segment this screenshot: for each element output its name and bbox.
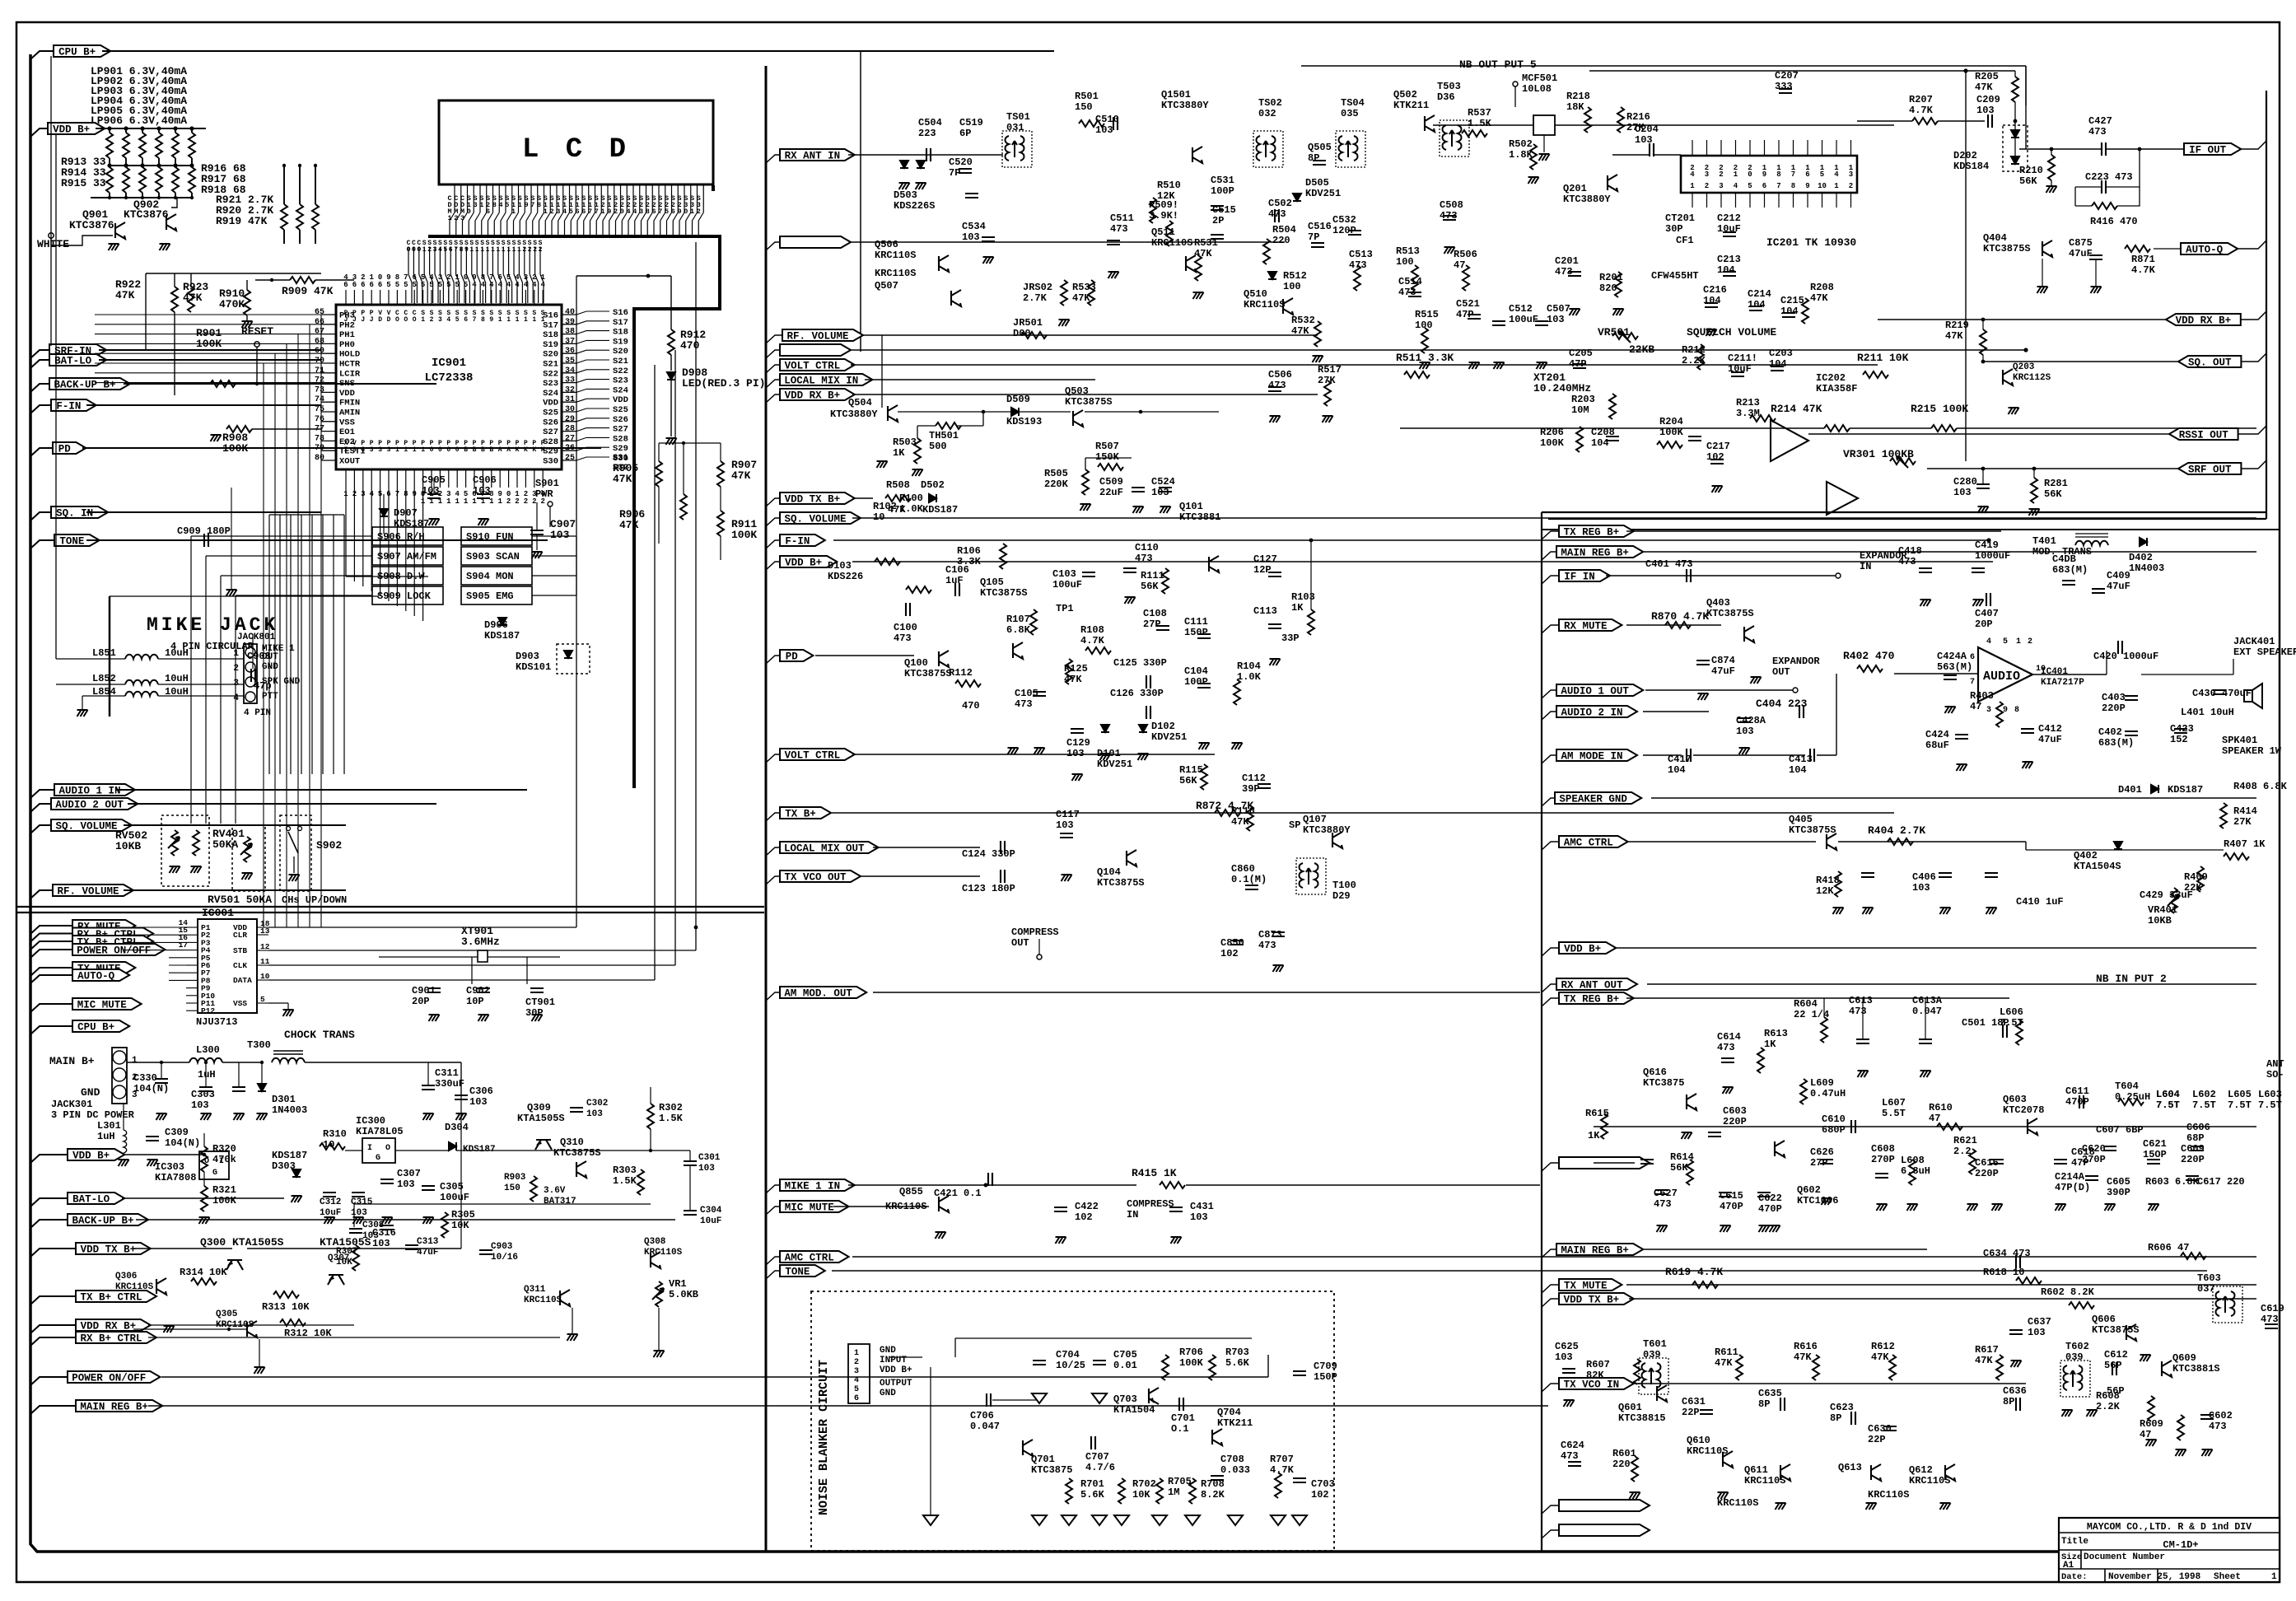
svg-text:473: 473 xyxy=(894,632,912,644)
svg-text:R106: R106 xyxy=(957,545,981,557)
expandor out node xyxy=(1793,688,1798,693)
wire RX ANT OUT r xyxy=(1647,983,2256,985)
svg-text:O: O xyxy=(407,246,411,254)
capacitor xyxy=(1033,692,1046,696)
svg-text:R708: R708 xyxy=(1201,1478,1225,1490)
svg-text:78: 78 xyxy=(315,434,324,443)
svg-text:5: 5 xyxy=(404,281,408,289)
net mid LOCAL MIX OUT xyxy=(766,847,780,856)
svg-text:KTC3875S: KTC3875S xyxy=(1097,877,1145,889)
svg-text:KTC3881S: KTC3881S xyxy=(2172,1363,2220,1375)
resistor xyxy=(1098,464,1123,470)
svg-text:104(N): 104(N) xyxy=(165,1137,200,1149)
svg-text:KTC3875S: KTC3875S xyxy=(904,668,952,679)
resistor xyxy=(1189,1478,1196,1504)
ground xyxy=(1907,1204,1918,1211)
svg-text:C504: C504 xyxy=(918,117,942,128)
svg-text:3.9K!: 3.9K! xyxy=(1149,210,1178,222)
svg-text:104: 104 xyxy=(1780,306,1799,317)
svg-text:34: 34 xyxy=(565,366,575,376)
wire SRF OUT right xyxy=(1927,468,2178,469)
C330 cap xyxy=(155,1079,168,1083)
svg-text:47K: 47K xyxy=(1871,1351,1889,1363)
wire F-IN run xyxy=(86,404,321,406)
ground xyxy=(1698,693,1709,700)
transistor xyxy=(2162,1361,2172,1377)
svg-text:7P: 7P xyxy=(949,167,960,179)
svg-text:KRC112S: KRC112S xyxy=(2013,373,2051,383)
capacitor xyxy=(1799,705,1804,718)
resistor xyxy=(1195,255,1202,281)
ground xyxy=(1822,1198,1832,1205)
svg-text:1: 1 xyxy=(464,497,469,506)
svg-text:3: 3 xyxy=(556,208,560,216)
svg-text:JACK801: JACK801 xyxy=(237,632,276,642)
svg-text:S21: S21 xyxy=(543,360,558,370)
svg-text:683(M): 683(M) xyxy=(2098,737,2134,749)
svg-text:5: 5 xyxy=(421,273,425,282)
svg-text:36: 36 xyxy=(565,347,575,356)
svg-text:Q104: Q104 xyxy=(1097,866,1121,878)
svg-text:Q308: Q308 xyxy=(644,1237,666,1247)
svg-text:Q107: Q107 xyxy=(1303,814,1327,825)
capacitor xyxy=(1820,1160,1833,1164)
svg-text:C636: C636 xyxy=(2003,1385,2027,1397)
R303 resistor xyxy=(637,1169,644,1195)
capacitor xyxy=(2009,1330,2023,1334)
svg-text:VDD RX B+: VDD RX B+ xyxy=(785,390,841,402)
svg-text:HOLD: HOLD xyxy=(339,350,360,360)
svg-text:4: 4 xyxy=(1834,170,1839,179)
svg-text:C207: C207 xyxy=(1775,70,1799,82)
ground Q306 xyxy=(164,1326,175,1333)
svg-text:C909 180P: C909 180P xyxy=(177,525,231,537)
wire VDD RX B+ run xyxy=(852,394,1318,395)
svg-text:8: 8 xyxy=(492,201,497,209)
switch S906 R/H xyxy=(372,527,443,545)
svg-text:1: 1 xyxy=(233,649,239,659)
svg-text:039: 039 xyxy=(1643,1349,1661,1361)
svg-text:1.5K: 1.5K xyxy=(1468,118,1492,129)
svg-text:C701: C701 xyxy=(1171,1412,1195,1424)
svg-text:Q704: Q704 xyxy=(1217,1407,1241,1418)
capacitor xyxy=(2103,1146,2116,1151)
wire power on/off long xyxy=(161,1376,1268,1378)
svg-text:152: 152 xyxy=(2170,734,2188,745)
svg-text:R601: R601 xyxy=(1612,1448,1636,1459)
ground xyxy=(936,1232,946,1239)
capacitor xyxy=(1082,572,1095,576)
svg-text:47: 47 xyxy=(1929,1113,1940,1124)
svg-text:1: 1 xyxy=(511,208,516,216)
svg-text:0.1(M): 0.1(M) xyxy=(1231,874,1267,885)
svg-text:C305: C305 xyxy=(440,1181,464,1193)
svg-text:S904 MON: S904 MON xyxy=(466,571,514,582)
svg-text:S17: S17 xyxy=(613,318,628,328)
svg-text:L602: L602 xyxy=(2192,1089,2216,1100)
svg-text:G: G xyxy=(376,1154,380,1163)
svg-text:Q305: Q305 xyxy=(216,1309,238,1319)
svg-text:C125 330P: C125 330P xyxy=(1113,657,1167,669)
ground xyxy=(1323,416,1333,422)
svg-text:R207: R207 xyxy=(1909,94,1933,105)
svg-text:S19: S19 xyxy=(543,340,558,350)
wire IF IN r xyxy=(1606,575,1836,576)
net rb MAIN REG B+ xyxy=(1542,552,1556,560)
svg-text:27: 27 xyxy=(565,434,575,443)
svg-text:4.7K: 4.7K xyxy=(1270,1464,1295,1476)
net rb blank xyxy=(1542,1505,1559,1514)
svg-text:4: 4 xyxy=(497,281,502,289)
svg-text:3.3M: 3.3M xyxy=(1736,408,1760,419)
net TX B+ CTRL xyxy=(30,941,72,950)
svg-text:7: 7 xyxy=(595,208,599,216)
resistor xyxy=(1888,838,1913,845)
svg-text:C417: C417 xyxy=(1668,754,1692,765)
svg-text:47K: 47K xyxy=(731,469,751,482)
svg-text:5: 5 xyxy=(395,281,399,289)
resistor xyxy=(1857,665,1883,672)
svg-text:A: A xyxy=(506,446,511,454)
svg-text:C507: C507 xyxy=(1547,303,1570,315)
ground xyxy=(1776,1503,1786,1510)
svg-text:1uF: 1uF xyxy=(945,575,964,586)
svg-text:6: 6 xyxy=(361,281,365,289)
resistor xyxy=(1692,1281,1718,1288)
resistor xyxy=(1201,764,1207,790)
svg-text:R602 8.2K: R602 8.2K xyxy=(2041,1286,2095,1298)
svg-text:0.47uH: 0.47uH xyxy=(1810,1088,1846,1099)
ground xyxy=(1739,748,1750,754)
svg-text:100P: 100P xyxy=(1211,185,1234,197)
svg-text:R507: R507 xyxy=(1095,441,1119,452)
transistor xyxy=(1687,1094,1696,1110)
capacitor xyxy=(1723,232,1736,236)
svg-text:R531: R531 xyxy=(1194,237,1218,249)
wire BACK-UP B+ run xyxy=(124,383,436,385)
svg-text:T100: T100 xyxy=(1332,880,1356,891)
wire MIC MUTE run xyxy=(833,1206,929,1207)
svg-text:C428A: C428A xyxy=(1736,715,1766,726)
svg-text:C635: C635 xyxy=(1758,1388,1782,1399)
svg-text:5: 5 xyxy=(455,316,460,324)
svg-text:150: 150 xyxy=(504,1183,520,1193)
resistor xyxy=(1314,321,1321,347)
svg-text:1K: 1K xyxy=(1291,602,1304,614)
svg-text:1: 1 xyxy=(1690,182,1695,190)
svg-text:8: 8 xyxy=(481,316,485,324)
switch bundle verticals xyxy=(190,536,192,824)
svg-text:L605: L605 xyxy=(2228,1089,2252,1100)
resistor xyxy=(1215,810,1240,816)
svg-text:C420 1000uF: C420 1000uF xyxy=(2093,651,2158,662)
capacitor xyxy=(1771,366,1784,371)
capacitor xyxy=(987,1393,991,1407)
svg-text:0: 0 xyxy=(1748,170,1752,179)
svg-text:7.5T: 7.5T xyxy=(2156,1099,2180,1111)
svg-text:R513: R513 xyxy=(1396,245,1420,257)
svg-text:6: 6 xyxy=(412,273,416,282)
svg-text:0: 0 xyxy=(430,446,434,454)
transistor xyxy=(951,290,961,306)
svg-text:C902: C902 xyxy=(466,985,490,997)
net POWER ON/OFF xyxy=(30,1377,68,1385)
svg-text:1: 1 xyxy=(475,246,479,254)
svg-text:KRC110S: KRC110S xyxy=(1868,1489,1909,1501)
svg-text:10P: 10P xyxy=(466,996,484,1007)
svg-text:4: 4 xyxy=(626,208,630,216)
C302 cap xyxy=(570,1108,583,1112)
C306 cap xyxy=(455,1095,468,1099)
C303 cap xyxy=(199,1087,212,1091)
ground xyxy=(2140,1355,2151,1361)
svg-text:2: 2 xyxy=(446,273,450,282)
svg-text:L C D: L C D xyxy=(522,134,631,166)
resistor xyxy=(1821,1017,1827,1043)
svg-text:S26: S26 xyxy=(613,415,628,425)
svg-text:C637: C637 xyxy=(2028,1316,2051,1328)
svg-text:NOISE BLANKER CIRCUIT: NOISE BLANKER CIRCUIT xyxy=(817,1360,831,1515)
capacitor xyxy=(1535,321,1548,325)
svg-text:PH1: PH1 xyxy=(339,330,355,340)
svg-text:C634 473: C634 473 xyxy=(1983,1248,2031,1259)
svg-text:473: 473 xyxy=(1717,1042,1735,1053)
net mid RF. VOLUME xyxy=(766,335,782,343)
ground xyxy=(1100,754,1111,760)
svg-text:Q602: Q602 xyxy=(1797,1184,1821,1196)
svg-text:KTC3875S: KTC3875S xyxy=(1789,824,1836,836)
ground xyxy=(1957,764,1967,771)
svg-text:LCIR: LCIR xyxy=(339,369,361,379)
svg-text:C209: C209 xyxy=(1976,94,2000,105)
svg-text:AUDIO 1 OUT: AUDIO 1 OUT xyxy=(1561,686,1629,698)
resistor xyxy=(1736,1355,1743,1380)
capacitor xyxy=(1001,841,1005,854)
svg-text:C108: C108 xyxy=(1143,608,1167,619)
svg-text:R511 3.3K: R511 3.3K xyxy=(1396,352,1454,364)
svg-text:69: 69 xyxy=(315,347,324,356)
switch S904 MON xyxy=(461,567,532,585)
wire RF. VOLUME run xyxy=(124,889,346,891)
svg-text:C406: C406 xyxy=(1912,871,1936,883)
svg-text:C874: C874 xyxy=(1711,655,1735,666)
svg-text:SP: SP xyxy=(1289,819,1300,831)
svg-text:103: 103 xyxy=(550,529,570,541)
svg-text:S906 R/H: S906 R/H xyxy=(377,531,425,543)
net MAIN REG B+ xyxy=(30,1406,76,1414)
svg-text:SRF OUT: SRF OUT xyxy=(2188,464,2232,476)
svg-text:C514: C514 xyxy=(1398,276,1422,287)
svg-text:4: 4 xyxy=(472,281,477,289)
svg-text:10KB: 10KB xyxy=(2148,915,2172,927)
svg-text:11: 11 xyxy=(260,957,270,966)
svg-text:C312: C312 xyxy=(320,1197,341,1207)
svg-text:73: 73 xyxy=(315,385,324,394)
svg-text:EO1: EO1 xyxy=(339,427,355,437)
ground xyxy=(1706,329,1717,336)
svg-text:2: 2 xyxy=(524,497,528,506)
svg-text:1: 1 xyxy=(2271,1572,2277,1582)
svg-text:C409: C409 xyxy=(2107,570,2130,581)
Q402 thyristor xyxy=(2114,842,2122,849)
svg-text:VR301 100KB: VR301 100KB xyxy=(1843,448,1914,460)
wire AMC CTRL run xyxy=(852,1256,2256,1258)
svg-text:473: 473 xyxy=(1110,223,1128,235)
svg-text:Q701: Q701 xyxy=(1031,1454,1055,1465)
wire mid blank run xyxy=(851,241,1285,243)
svg-text:220P: 220P xyxy=(1975,1168,1999,1179)
svg-text:SPK GND: SPK GND xyxy=(262,677,301,687)
svg-text:C626: C626 xyxy=(1810,1146,1834,1158)
svg-text:3: 3 xyxy=(1705,170,1709,179)
svg-text:38: 38 xyxy=(565,328,575,337)
ground xyxy=(1199,743,1210,749)
svg-text:SQ. OUT: SQ. OUT xyxy=(2188,357,2232,369)
R210 resistor xyxy=(2048,155,2055,180)
svg-text:103: 103 xyxy=(1547,314,1565,325)
capacitor xyxy=(2021,729,2034,733)
svg-text:563(M): 563(M) xyxy=(1937,661,1972,673)
svg-text:R305: R305 xyxy=(451,1209,475,1221)
svg-text:4: 4 xyxy=(515,273,520,282)
svg-text:0: 0 xyxy=(438,446,442,454)
resistor xyxy=(1000,544,1006,569)
diode xyxy=(1011,408,1019,416)
svg-text:MOD. TRANS: MOD. TRANS xyxy=(2032,546,2092,558)
svg-text:104(N): 104(N) xyxy=(133,1083,169,1095)
svg-text:R204: R204 xyxy=(1659,416,1683,427)
svg-text:R108: R108 xyxy=(1080,624,1104,636)
svg-text:EXT SPEAKER: EXT SPEAKER xyxy=(2233,646,2296,658)
capacitor xyxy=(1113,117,1118,130)
ground xyxy=(1973,600,1984,606)
ground xyxy=(1657,1225,1668,1232)
svg-text:S22: S22 xyxy=(613,366,628,376)
svg-text:IC001: IC001 xyxy=(202,907,234,919)
svg-text:500: 500 xyxy=(929,441,947,452)
svg-text:9: 9 xyxy=(489,316,493,324)
svg-text:C307: C307 xyxy=(397,1168,421,1179)
net mid MIC MUTE xyxy=(766,1207,780,1215)
svg-text:5: 5 xyxy=(464,281,468,289)
transistor xyxy=(1425,115,1435,132)
resistor xyxy=(1061,280,1067,306)
diode xyxy=(917,161,925,168)
resistor xyxy=(1156,1478,1163,1504)
svg-text:1: 1 xyxy=(532,316,536,324)
C902 cap xyxy=(477,988,490,992)
svg-text:CPU B+: CPU B+ xyxy=(58,47,96,58)
svg-text:9: 9 xyxy=(1805,182,1809,190)
wire bundle verticals left panel xyxy=(695,242,697,950)
svg-text:47: 47 xyxy=(1454,259,1465,271)
diode xyxy=(1293,194,1301,201)
svg-text:R416 470: R416 470 xyxy=(2090,216,2138,227)
wire blank r xyxy=(1594,1162,1635,1164)
svg-text:103: 103 xyxy=(191,1099,209,1111)
ground xyxy=(899,183,910,189)
svg-text:4: 4 xyxy=(489,281,494,289)
svg-text:KDS187: KDS187 xyxy=(463,1145,496,1155)
net mid PD xyxy=(766,656,780,664)
svg-text:D509: D509 xyxy=(1006,394,1030,405)
svg-text:3: 3 xyxy=(387,446,391,454)
svg-text:KDV251: KDV251 xyxy=(1097,758,1132,770)
ground xyxy=(1682,1132,1692,1139)
svg-text:VDD: VDD xyxy=(613,395,628,405)
svg-text:22KB: 22KB xyxy=(1629,343,1654,356)
capacitor xyxy=(1293,1371,1306,1375)
svg-text:4: 4 xyxy=(343,273,348,282)
svg-text:C513: C513 xyxy=(1349,249,1373,260)
wire SRF-IN run xyxy=(99,349,321,351)
capacitor xyxy=(1179,1398,1183,1411)
svg-text:5: 5 xyxy=(412,281,416,289)
svg-text:PH0: PH0 xyxy=(339,340,355,350)
ground xyxy=(1858,1071,1869,1077)
svg-text:C110: C110 xyxy=(1135,542,1159,553)
svg-text:A1: A1 xyxy=(2063,1561,2074,1571)
svg-text:C308: C308 xyxy=(362,1221,385,1230)
switch S907 AM/FM xyxy=(372,547,443,565)
svg-text:2: 2 xyxy=(528,246,532,254)
svg-text:KTC3876: KTC3876 xyxy=(124,208,169,221)
capacitor xyxy=(1443,216,1456,220)
svg-text:1: 1 xyxy=(480,246,484,254)
ground xyxy=(1723,1087,1734,1094)
resistor xyxy=(1634,1359,1640,1384)
svg-text:S23: S23 xyxy=(613,376,628,386)
C209 cap xyxy=(1988,114,1992,128)
svg-text:OUT: OUT xyxy=(1772,666,1790,678)
svg-text:B: B xyxy=(489,446,493,454)
capacitor xyxy=(1687,569,1691,582)
svg-text:R508: R508 xyxy=(886,479,910,491)
svg-text:4: 4 xyxy=(540,281,545,289)
svg-text:C309: C309 xyxy=(165,1127,189,1138)
svg-text:TX B+ CTRL: TX B+ CTRL xyxy=(80,1292,142,1304)
svg-text:C117: C117 xyxy=(1056,809,1080,820)
svg-text:C212: C212 xyxy=(1717,212,1741,224)
svg-text:O: O xyxy=(385,1144,390,1153)
transistor xyxy=(1127,850,1136,866)
svg-text:100uF: 100uF xyxy=(1052,579,1082,590)
svg-text:68uF: 68uF xyxy=(1925,740,1949,751)
svg-text:S18: S18 xyxy=(613,328,628,338)
capacitor xyxy=(1245,885,1258,889)
svg-text:6: 6 xyxy=(1762,182,1766,190)
svg-text:CLR: CLR xyxy=(233,931,247,940)
ground xyxy=(1160,506,1171,513)
resistor xyxy=(1813,1355,1819,1380)
ground xyxy=(1034,748,1045,754)
svg-text:102: 102 xyxy=(1706,451,1724,463)
svg-text:KIA78L05: KIA78L05 xyxy=(356,1126,404,1137)
wire VDD bus to transistors xyxy=(171,198,177,208)
svg-text:9: 9 xyxy=(607,208,611,216)
svg-text:1: 1 xyxy=(506,316,511,324)
resistor xyxy=(1462,130,1487,137)
capacitor xyxy=(1939,873,1952,877)
svg-text:T601: T601 xyxy=(1643,1338,1667,1350)
svg-text:KRC110S: KRC110S xyxy=(524,1295,562,1305)
svg-text:39: 39 xyxy=(565,318,575,327)
ground Q901 xyxy=(109,244,119,250)
svg-text:0.25uH: 0.25uH xyxy=(2115,1091,2150,1103)
svg-text:C223 473: C223 473 xyxy=(2085,171,2133,183)
svg-text:C609: C609 xyxy=(2181,1143,2205,1155)
svg-text:S28: S28 xyxy=(613,434,628,444)
